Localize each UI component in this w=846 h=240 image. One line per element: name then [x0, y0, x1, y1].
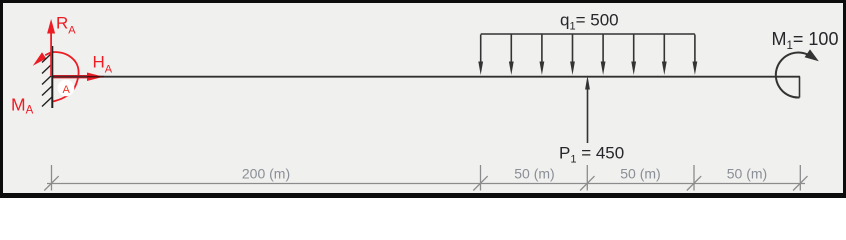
distributed load q1 bar [481, 33, 695, 35]
q1 arrow 5 [601, 35, 606, 76]
dimension line [47, 183, 805, 185]
reaction arrow R_A [47, 19, 55, 76]
dimension tick at x=800 [793, 165, 807, 191]
point load P1 [585, 76, 590, 144]
svg-text:200 (m): 200 (m) [242, 166, 290, 182]
svg-text:A: A [63, 84, 71, 96]
q1 arrow 2 [509, 35, 514, 76]
reaction arrow H_A shaft [53, 75, 87, 78]
node A [58, 80, 75, 97]
reaction arrow H_A head [87, 73, 104, 82]
red tint on beam over H_A shaft [53, 76, 87, 78]
svg-text:MA: MA [11, 95, 34, 117]
dimension tick at x=587 [580, 165, 594, 191]
moment arc M_A arrowhead [33, 52, 46, 66]
q1 arrow 7 [662, 35, 667, 76]
dimension tick at x=481 [473, 165, 487, 191]
svg-text:50 (m): 50 (m) [727, 166, 767, 182]
dimension tick at support [44, 165, 58, 191]
svg-text:RA: RA [56, 14, 76, 37]
q1 arrow 1 [478, 35, 483, 76]
q1 arrow 3 [540, 35, 545, 76]
fixed support wall at A [51, 46, 53, 108]
moment arc M1 [776, 53, 812, 98]
svg-text:HA: HA [93, 53, 113, 76]
beam [52, 76, 800, 78]
moment arc M_A [45, 52, 78, 101]
q1 arrow 4 [570, 35, 575, 76]
q1 arrow 6 [631, 35, 636, 76]
support hatching [42, 53, 52, 107]
svg-text:q1= 500: q1= 500 [560, 10, 619, 32]
dimension tick at x=694 [687, 165, 701, 191]
svg-text:50 (m): 50 (m) [514, 166, 554, 182]
svg-text:M1= 100: M1= 100 [772, 29, 839, 52]
moment M1 radius line [799, 77, 801, 98]
svg-text:P1 = 450: P1 = 450 [559, 144, 624, 166]
svg-text:50 (m): 50 (m) [620, 166, 660, 182]
beam over H_A head [87, 76, 104, 78]
q1 arrow 8 [693, 35, 698, 76]
